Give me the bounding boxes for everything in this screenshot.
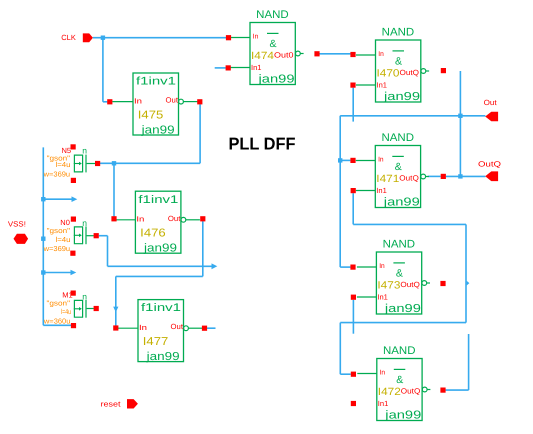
svg-text:f1inv1: f1inv1: [136, 76, 176, 88]
wire stub at I477 Out: [207, 327, 215, 329]
pin CLK: [61, 33, 93, 42]
svg-text:OutQ: OutQ: [399, 174, 419, 183]
wire VSS rail corner to M1 source: [43, 324, 71, 326]
wire stub at I474 In1: [215, 67, 226, 69]
inverter I477 (f1inv1): [117, 300, 202, 364]
pin square I470 In: [350, 52, 355, 57]
svg-text:NAND: NAND: [383, 345, 416, 357]
svg-text:&: &: [270, 38, 277, 50]
svg-text:NAND: NAND: [256, 9, 289, 21]
wire I471 In1 right: [353, 223, 466, 225]
svg-text:Out: Out: [171, 322, 184, 331]
svg-text:CLK: CLK: [61, 33, 76, 42]
NAND gate I472 (I472): [357, 345, 430, 421]
pin square I477 Out: [202, 326, 207, 331]
wire CLK horizontal: [93, 37, 226, 39]
pin square I474 In: [226, 35, 231, 40]
pin Out: [484, 98, 499, 121]
svg-text:reset: reset: [101, 399, 122, 408]
M1 source pin: [71, 323, 76, 328]
wire down to I476 In: [113, 163, 115, 216]
wire direction arrow nub: [467, 281, 470, 286]
NAND gate I473 (I473): [357, 239, 430, 315]
svg-text:Out: Out: [484, 98, 498, 107]
svg-text:jan99: jan99: [383, 196, 420, 208]
svg-text:In: In: [378, 51, 384, 58]
pin square I472 In1: [351, 401, 356, 406]
svg-text:I473: I473: [377, 280, 400, 292]
inverter I476 (f1inv1): [115, 191, 200, 255]
pin square I476 In: [111, 216, 116, 221]
svg-text:In: In: [134, 96, 142, 105]
NAND gate I471 (I471): [356, 132, 429, 208]
wire I474 Out to I470 In: [320, 53, 351, 55]
svg-text:I472: I472: [378, 386, 401, 398]
wire N0 drain right: [99, 235, 108, 237]
svg-text:jan99: jan99: [145, 351, 179, 363]
svg-text:In1: In1: [376, 186, 387, 195]
svg-text:&: &: [396, 374, 403, 386]
svg-text:In: In: [379, 263, 385, 270]
wire I472 Out right: [446, 389, 469, 391]
svg-text:In1: In1: [251, 63, 262, 72]
node rail junction 2: [41, 237, 45, 241]
svg-text:n: n: [82, 146, 87, 156]
pin square I471 In: [350, 158, 355, 163]
svg-text:In1: In1: [377, 81, 388, 90]
wire CLK down to I475 In: [102, 38, 104, 102]
svg-text:Out: Out: [168, 214, 181, 223]
wire down right column: [465, 224, 467, 322]
svg-text:jan99: jan99: [384, 409, 421, 421]
wire to I473 In: [340, 266, 350, 268]
svg-text:OutQ: OutQ: [400, 68, 420, 77]
svg-text:In: In: [378, 157, 384, 164]
svg-text:w=360u: w=360u: [43, 316, 71, 325]
N5 source pin: [71, 178, 76, 183]
pin square I474 In1: [226, 65, 231, 70]
wire I470 Out level vertical: [459, 71, 461, 176]
pin VSS!: [8, 219, 28, 244]
node CLK junction: [101, 36, 105, 40]
svg-text:l=4u: l=4u: [61, 307, 71, 316]
svg-text:&: &: [395, 55, 402, 67]
svg-text:OutQ: OutQ: [401, 387, 421, 396]
pin square I473 In: [350, 265, 355, 270]
M1 gate pin: [71, 291, 76, 296]
svg-text:w=369u: w=369u: [43, 244, 71, 253]
svg-text:In1: In1: [378, 399, 389, 408]
svg-text:In1: In1: [377, 293, 388, 302]
wire down to I472 In level: [339, 323, 341, 375]
node rail junction 1: [41, 197, 45, 201]
wire VSS rail vertical: [42, 147, 44, 325]
svg-text:jan99: jan99: [257, 73, 294, 85]
inverter I475 (f1inv1): [112, 73, 197, 137]
wire to I472 In: [340, 373, 351, 375]
svg-text:I474: I474: [251, 50, 274, 62]
pin square I477 In: [113, 325, 118, 330]
pin square I474 Out: [314, 51, 319, 56]
svg-text:w=369u: w=369u: [43, 170, 71, 179]
svg-text:In: In: [139, 323, 147, 332]
pin square I471 In1: [351, 188, 356, 193]
pin square I475 Out: [197, 99, 202, 104]
wire rail stub arrow 1: [43, 198, 72, 200]
N0 source pin: [70, 251, 75, 256]
svg-text:In: In: [136, 215, 144, 224]
wire stub I473 In1 down: [352, 300, 354, 334]
svg-text:n: n: [82, 291, 87, 301]
pin square I472 Out: [440, 388, 445, 393]
N5 gate pin: [71, 144, 76, 149]
pin reset: [101, 399, 138, 408]
svg-text:&: &: [395, 161, 402, 173]
node rail junction 3: [41, 270, 45, 274]
svg-text:I475: I475: [138, 110, 164, 122]
svg-text:&: &: [396, 267, 403, 279]
wire stub I470 In1 down: [352, 88, 354, 122]
svg-text:l=4u: l=4u: [56, 160, 71, 169]
svg-text:jan99: jan99: [143, 243, 177, 255]
wire OutQ net: [428, 175, 441, 177]
wire I475 Out down: [199, 104, 201, 163]
svg-text:jan99: jan99: [384, 303, 421, 315]
node Out net junction to I471 In: [338, 158, 342, 162]
svg-text:jan99: jan99: [383, 91, 420, 103]
svg-text:OutQ: OutQ: [478, 160, 501, 169]
wire horizontal N5 drain to I475 Out: [100, 162, 200, 164]
wire left at y276: [116, 275, 203, 277]
svg-text:l=4u: l=4u: [56, 235, 71, 244]
svg-text:I476: I476: [140, 228, 166, 240]
node junction OutQ wire: [458, 174, 462, 178]
transistor N5 (nmos): [43, 146, 96, 179]
pin square I472 In: [351, 372, 356, 377]
pin square I475 In: [107, 99, 112, 104]
wire N0 net right with arrow: [108, 265, 213, 267]
M1 drain pin: [94, 306, 99, 311]
wire Out net horizontal: [340, 115, 485, 117]
svg-text:I470: I470: [377, 68, 400, 80]
svg-text:jan99: jan99: [140, 125, 174, 137]
svg-text:I477: I477: [143, 336, 169, 348]
svg-text:Out0: Out0: [274, 51, 294, 60]
svg-text:"gson": "gson": [47, 226, 71, 235]
N0 gate pin: [71, 217, 76, 222]
pin square I476 Out: [200, 216, 205, 221]
svg-text:VSS!: VSS!: [8, 219, 26, 228]
wire Out net vertical: [339, 116, 341, 267]
svg-text:I471: I471: [376, 173, 399, 185]
pin OutQ: [478, 160, 501, 182]
svg-text:Out: Out: [166, 96, 179, 105]
transistor M1 (nmos): [43, 290, 94, 325]
pin square I470 Out: [441, 68, 446, 73]
wire direction arrow down: [113, 307, 118, 313]
NAND gate I474 (I474): [231, 9, 304, 85]
svg-text:In: In: [380, 370, 386, 377]
svg-text:NAND: NAND: [382, 27, 415, 39]
wire I476 Out down: [202, 221, 204, 276]
pin square I473 Out: [440, 281, 445, 286]
N5 drain pin: [95, 161, 100, 166]
svg-text:OutQ: OutQ: [400, 280, 420, 289]
N0 drain pin: [94, 233, 99, 238]
transistor N0 (nmos): [43, 218, 94, 253]
wire I471 In1 down: [352, 193, 354, 224]
svg-text:In: In: [253, 34, 259, 41]
pin square I471 Out: [441, 174, 446, 179]
svg-text:f1inv1: f1inv1: [138, 194, 178, 206]
node junction at x114: [112, 161, 116, 165]
NAND gate I470 (I470): [356, 27, 429, 103]
wire to I471 In: [340, 159, 350, 161]
wire down to I477 In: [115, 276, 117, 325]
pin square I470 In1: [350, 83, 355, 88]
wire I472 Out up: [468, 334, 470, 390]
node junction Out wire: [458, 114, 462, 118]
wire left at y322: [340, 322, 466, 324]
pin square I473 In1: [351, 295, 356, 300]
svg-text:PLL DFF: PLL DFF: [229, 133, 296, 153]
svg-text:NAND: NAND: [382, 132, 415, 144]
svg-text:f1inv1: f1inv1: [141, 302, 181, 314]
svg-text:NAND: NAND: [383, 239, 416, 251]
wire rail stub arrow 2: [43, 272, 71, 274]
wire N0 drain down: [107, 236, 109, 267]
